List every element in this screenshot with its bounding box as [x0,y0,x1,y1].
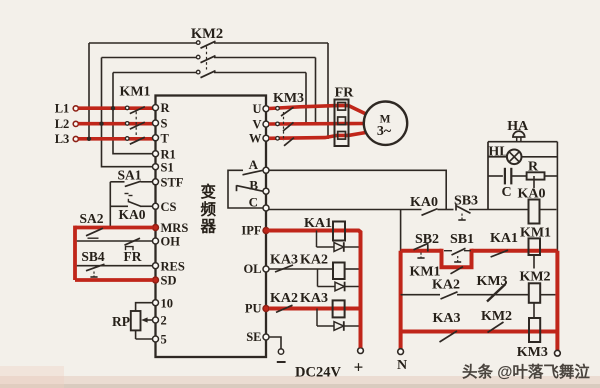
wire V phase (red) [269,122,365,126]
diode VD1 [316,231,318,248]
wire KM2 right drop 1 [327,43,329,139]
svg-text:U: U [252,102,261,116]
svg-text:KA0: KA0 [119,207,146,222]
svg-text:N: N [397,358,407,373]
svg-text:C: C [501,185,511,200]
terminal MRS [153,225,159,231]
svg-text:头条 @叶落飞舞泣: 头条 @叶落飞舞泣 [462,362,590,381]
wire KM2 line 2 [102,57,197,59]
svg-text:SA1: SA1 [117,167,141,182]
node bottom-right supply [555,350,561,356]
terminal A [263,167,269,173]
terminal S [153,120,159,126]
contactor contact KM1-3 [125,137,129,141]
svg-text:OL: OL [243,262,261,276]
svg-text:KM2: KM2 [519,270,550,285]
wire row1 (red energized) [401,249,442,253]
wire L2 phase (red) [79,122,153,126]
diode VD2 [317,269,319,287]
svg-text:L2: L2 [55,117,70,131]
wire CS line [110,205,128,207]
motor M 3~ [364,102,407,145]
wire STF/CS rail [109,182,111,228]
svg-text:IPF: IPF [241,224,262,238]
terminal R1 [153,151,159,157]
svg-text:W: W [249,131,262,145]
terminal S1 [153,164,159,170]
frequency inverter U1 box [156,96,267,358]
terminal 10 [153,300,159,306]
svg-text:+: + [354,358,364,377]
terminal 2 [153,317,159,323]
wire KM2 left drop 2 (continues to S1) [102,58,156,167]
inverter fault relay contact A-B-C [228,170,263,208]
svg-text:A: A [249,157,259,172]
wire KM2 line 3 [113,72,197,74]
svg-text:RES: RES [161,259,185,273]
terminal U [263,106,269,112]
capacitor C [488,175,503,177]
svg-text:R: R [161,101,171,115]
wire SD line (red) [75,278,153,282]
terminal CS [153,203,159,209]
svg-text:KA1: KA1 [490,231,518,246]
terminal STF [153,179,159,185]
terminal 5 [153,336,159,342]
svg-text:变: 变 [201,182,217,201]
junction L2/S1 [99,122,103,126]
svg-text:FR: FR [124,249,142,264]
svg-text:3~: 3~ [377,124,392,139]
terminal T [153,135,159,141]
svg-text:SD: SD [161,274,177,288]
svg-text:2: 2 [161,314,167,328]
svg-text:S1: S1 [161,160,174,174]
svg-text:STF: STF [161,175,184,189]
contactor contact KM3-2 [276,122,280,126]
svg-text:PU: PU [245,302,262,316]
contactor coil KM3 [529,318,540,342]
wire +24V bus (red) [266,231,361,348]
wire left ladder rail (red energized) [399,251,403,349]
svg-text:DC24V: DC24V [295,365,341,381]
terminal B [263,188,269,194]
svg-text:R1: R1 [161,147,176,161]
wire U phase (red) [269,106,367,115]
wire right rail lower (red) [555,251,559,351]
terminal RES [153,263,159,269]
wire SE to minus [269,337,281,349]
node plus [358,348,364,354]
svg-text:SB4: SB4 [81,249,105,264]
wire KM1 self-hold branch (red) [442,249,472,268]
diode VD3 [316,309,318,327]
mechanical link KM2 [206,47,208,70]
svg-text:KA3: KA3 [270,253,298,268]
node N [398,349,404,355]
svg-text:T: T [161,131,170,145]
wire OL row [269,268,333,270]
wire KM2 left drop 1 [88,43,90,138]
contactor contact KM2-2 [196,55,200,59]
svg-text:KM2: KM2 [481,309,512,324]
svg-text:KM3: KM3 [273,91,304,106]
contactor contact KM3-1 [276,107,280,111]
terminal SD [153,277,159,283]
svg-text:SB1: SB1 [450,232,474,247]
svg-text:RP: RP [112,314,130,329]
terminal V [263,121,269,127]
svg-text:KM1: KM1 [119,85,150,100]
svg-text:SE: SE [246,330,261,344]
wire KM2 right drop 3 [305,73,307,124]
wire A to alarm row [269,170,446,209]
node minus [278,349,283,354]
wire L1 phase (red) [79,106,153,110]
terminal C [263,205,269,211]
terminal OH [153,238,159,244]
svg-text:器: 器 [200,218,217,236]
contactor contact KM1-1 [125,106,129,110]
svg-text:KA2: KA2 [432,278,460,293]
terminal PU [263,306,269,312]
svg-text:5: 5 [161,333,167,347]
svg-text:S: S [161,117,168,131]
wire coil column stub KM1-KM2 [533,255,535,269]
svg-text:KM3: KM3 [517,345,548,360]
relay coil KA0 [533,176,535,188]
terminal R [153,105,159,111]
wire SD common drop (red) [73,226,77,280]
svg-text:V: V [252,117,261,131]
wire right rail upper (black) [556,142,558,251]
svg-text:KM2: KM2 [191,26,223,42]
contactor contact KM2-3 [196,70,200,74]
wire C row (row0) [269,209,422,211]
wire OH line [77,240,153,242]
svg-text:KA3: KA3 [300,291,328,306]
svg-text:KA0: KA0 [410,195,438,210]
svg-text:L3: L3 [55,132,70,146]
wire KM2 line 1 [89,42,197,44]
wire row2 [401,294,440,296]
wire L3 phase (red) [79,137,153,141]
wire left ladder rail (black part) [400,210,402,252]
contactor contact KM1-2 [125,122,129,126]
contactor contact KM2-1 [196,41,200,45]
wire RES line [77,265,153,267]
svg-text:KA2: KA2 [270,291,298,306]
svg-text:KA1: KA1 [304,216,332,231]
svg-text:FR: FR [335,86,355,101]
wire STF line [110,181,124,183]
wire PU row (red) [269,307,359,311]
svg-text:KA2: KA2 [300,253,328,268]
svg-text:SA2: SA2 [79,211,103,226]
wire KM2 right drop 2 [315,58,317,124]
mechanical link KM1 [135,112,137,136]
terminal IPF [263,228,269,234]
terminal W [263,135,269,141]
junction L1/R1 [111,106,115,110]
terminal SE [263,334,269,340]
junction L3 [87,137,91,141]
svg-text:10: 10 [161,296,174,310]
svg-text:L1: L1 [55,101,70,115]
svg-text:OH: OH [161,235,181,249]
alarm box frame [488,141,557,143]
terminal OL [263,266,269,272]
wire coil column stub KM2-KM3 [533,303,535,318]
svg-text:KA3: KA3 [433,311,461,326]
svg-text:MRS: MRS [161,221,189,235]
svg-text:频: 频 [201,199,217,218]
contactor contact KM3-3 [276,137,280,141]
wiper arrow RP-2 [145,319,153,321]
wire MRS line (red) [75,226,153,230]
mechanical link KM3 [283,112,285,141]
svg-text:CS: CS [161,200,177,214]
wire row3 (red energized) [401,330,558,334]
wire W phase (red) [269,132,367,138]
wire KM2 left drop 3 (continues to R1) [113,73,156,154]
